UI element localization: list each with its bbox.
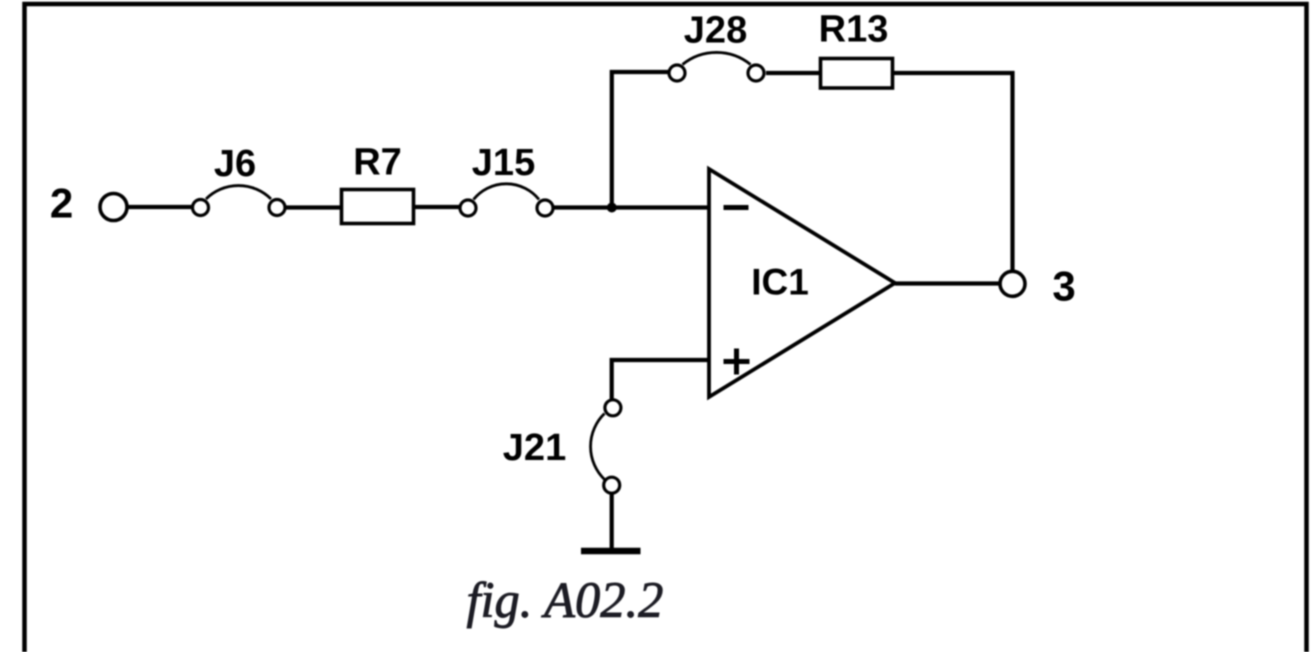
svg-text:2: 2	[50, 180, 73, 227]
svg-text:R13: R13	[819, 9, 889, 51]
svg-text:3: 3	[1052, 263, 1075, 310]
svg-text:J15: J15	[472, 142, 535, 184]
svg-text:J28: J28	[684, 10, 747, 52]
svg-text:IC1: IC1	[751, 262, 809, 303]
svg-text:R7: R7	[353, 142, 402, 184]
svg-text:J21: J21	[503, 427, 566, 469]
svg-text:fig. A02.2: fig. A02.2	[467, 572, 664, 628]
svg-text:J6: J6	[214, 143, 256, 185]
